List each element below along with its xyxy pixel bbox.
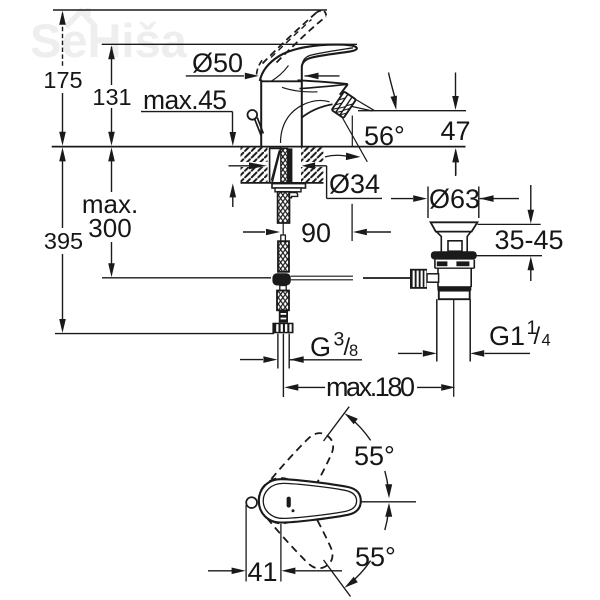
svg-text:300: 300 [88, 213, 131, 243]
wire: aerator outlet datum line [358, 110, 466, 112]
raised lever (dashed) base arc [257, 58, 265, 75]
spout outlet circle (top view) [246, 497, 257, 508]
dimension 90 arrow left [243, 231, 265, 233]
dimension 35-45 upper arrow [530, 185, 532, 211]
waste tailpipe right [469, 299, 471, 361]
dimension G3/8 arrow right + underline [290, 356, 304, 363]
spout bottom edge [302, 104, 333, 117]
dimension 90 arrow right [353, 229, 367, 236]
faucet body left edge [260, 80, 262, 147]
leader arrow to 56 deg vertex [325, 155, 347, 157]
handle top view inner outline [263, 483, 356, 518]
faucet cartridge cap line [261, 80, 303, 82]
dimension 395 extension line [62, 160, 64, 228]
pop-up rod joint [272, 273, 290, 285]
pop-up rod horizontal (right of joint) [291, 275, 353, 277]
shank dark stripe [288, 148, 293, 182]
waste slotted body [434, 260, 436, 269]
internal water channel curve [281, 101, 330, 143]
hose ferrule top [281, 235, 286, 241]
watermark house icon [66, 8, 96, 27]
wire: 395 lower datum line [55, 333, 274, 335]
dimension 41 extension line right [280, 524, 282, 582]
svg-text:8: 8 [349, 342, 358, 360]
wire: 35-45 lower datum [475, 255, 543, 257]
dimension max.45 leader/arrows [232, 112, 234, 133]
deck bottom line [241, 182, 324, 184]
dimension 41 arrow left [208, 570, 232, 572]
svg-text:4: 4 [542, 332, 551, 350]
waste neck right [467, 232, 471, 252]
pop-up rod continuation to waste [363, 277, 410, 279]
diameter 63 extension tick right [478, 187, 480, 219]
threaded shank in hole [281, 148, 288, 182]
svg-text:131: 131 [92, 84, 131, 110]
wire: 35-45 upper datum [478, 223, 541, 225]
handle top view outline [259, 479, 361, 522]
55 deg angle arc lower [385, 512, 389, 530]
svg-text:Ø34: Ø34 [329, 169, 380, 199]
svg-text:/: / [534, 323, 541, 350]
dimension 47 lower arrow [455, 160, 457, 175]
dimension 47 upper arrow [455, 73, 457, 98]
waste neck left [436, 232, 441, 252]
aerator (mousseur) at 56 degrees [332, 91, 356, 118]
svg-text:35-45: 35-45 [494, 225, 563, 255]
raised lever (dashed) edge 2 [277, 17, 327, 63]
mounting wedge cone [270, 148, 281, 182]
wire: top reference line (175 upper datum) [53, 9, 327, 11]
raised lever (dashed) edge 1 [263, 13, 317, 64]
waste lift-rod housing [448, 241, 462, 251]
swivelled handle position lower (dashed) [250, 470, 344, 578]
swivel axis extension upper [324, 407, 350, 441]
dimension 41 arrow right [281, 568, 295, 575]
hose end fitting [279, 310, 288, 322]
wire: max.300 lower datum / pop-up rod line [102, 277, 271, 279]
svg-text:Ø63: Ø63 [429, 184, 480, 214]
dimension 175 extension line [62, 13, 64, 68]
faucet centerline pipe [282, 334, 284, 397]
internal cap curve [272, 66, 289, 82]
spout top edge [298, 80, 348, 84]
dimension max.180 right arrow [417, 386, 441, 388]
svg-text:90: 90 [301, 218, 331, 248]
svg-text:G1: G1 [489, 321, 525, 351]
spout end face [340, 84, 348, 95]
waste tailpipe left [436, 299, 438, 361]
waste lower body [437, 268, 439, 287]
svg-text:55°: 55° [355, 542, 396, 572]
mounting wedge inner line [271, 151, 279, 181]
label diameter 34 underline [327, 197, 382, 199]
hose connection stub [290, 193, 298, 198]
aerator outlet projection line 1 [356, 100, 374, 111]
raised lever (dashed) inner line [271, 20, 312, 58]
svg-text:max.45: max.45 [143, 85, 227, 115]
dimension G3/8 arrow left [240, 359, 263, 361]
dimension G1 1/4 arrow left [398, 352, 422, 354]
swivel axis extension lower [324, 560, 351, 597]
svg-text:395: 395 [44, 228, 83, 254]
swivelled handle position upper (dashed) [251, 423, 345, 531]
55 deg angle arc upper [349, 417, 370, 440]
supply pipe right edge [288, 334, 290, 369]
internal upper channel curve [282, 87, 318, 92]
deck hatching upper-left [241, 148, 268, 162]
svg-text:Ø50: Ø50 [192, 48, 243, 78]
dimension 35-45 lower arrow [528, 256, 535, 270]
deck hatching upper-right [301, 148, 324, 162]
diameter 50 dimension line right [305, 73, 319, 80]
svg-text:55°: 55° [354, 441, 395, 471]
dimension max.300 extension line [111, 160, 113, 192]
dimension max.180 left arrow [284, 384, 298, 391]
waste centerline upper arrow [455, 151, 457, 176]
diameter 63 extension tick left [427, 187, 429, 219]
pop-up knob stem [255, 119, 262, 136]
waste centerline [453, 299, 455, 397]
wire: top view horizontal centerline [361, 501, 416, 503]
lever handle outline (horizontal position) [260, 45, 357, 81]
aerator outlet projection line 2 [352, 107, 373, 112]
pop-up rod upper wire [282, 223, 284, 235]
leader arrow onto outlet datum [389, 73, 395, 97]
dimension G1 1/4 arrow right [470, 350, 484, 357]
deck top surface line [52, 146, 466, 148]
waste flange top [431, 222, 478, 231]
braided hose segment 2 [277, 291, 289, 311]
waste side connector [427, 274, 439, 282]
dimension 90 extension line [351, 204, 353, 241]
handle top view centre mark [287, 497, 291, 508]
lever handle inner contour [302, 48, 353, 65]
aerator axis line (56 deg) [340, 114, 367, 162]
diameter 63 arrow left [391, 198, 413, 200]
supply pipe left edge [277, 334, 279, 369]
waste body bottom flange [437, 286, 471, 290]
spout top inner edge [300, 84, 348, 88]
svg-text:max.180: max.180 [326, 372, 415, 402]
dimension 41 extension line left [245, 505, 247, 582]
wire: handle-top reference line (131 upper datum) [102, 43, 357, 45]
mounting washer plate [272, 184, 306, 188]
diameter 63 arrow right [480, 195, 494, 202]
diameter 34 leader elbow [326, 166, 328, 199]
threaded shank below deck [278, 192, 290, 223]
vertical reference at aerator [351, 116, 353, 147]
pop-up knob [248, 110, 258, 120]
diameter 34 dimension arrow right [302, 162, 316, 169]
svg-text:175: 175 [43, 67, 82, 93]
faucet body right edge [301, 67, 303, 147]
dimension 131 extension line [111, 47, 113, 85]
deck hatching lower-right [301, 167, 324, 182]
knurled coupling nut [272, 323, 293, 334]
raised lever (dashed) tip cap [317, 11, 327, 17]
svg-text:41: 41 [247, 557, 277, 587]
label max.45 underline [141, 111, 233, 113]
deck hatching lower-left [241, 167, 268, 182]
svg-text:47: 47 [440, 116, 470, 146]
waste side hose nut (knurled) [410, 269, 427, 289]
braided hose segment 1 [278, 241, 289, 272]
diameter 50 dimension line left [186, 75, 244, 77]
svg-text:G: G [310, 332, 331, 362]
diameter 34 dimension arrow left [229, 165, 250, 167]
mounting nut [275, 188, 301, 192]
hose ferrule middle [280, 286, 286, 291]
waste rubber gasket [431, 251, 477, 259]
